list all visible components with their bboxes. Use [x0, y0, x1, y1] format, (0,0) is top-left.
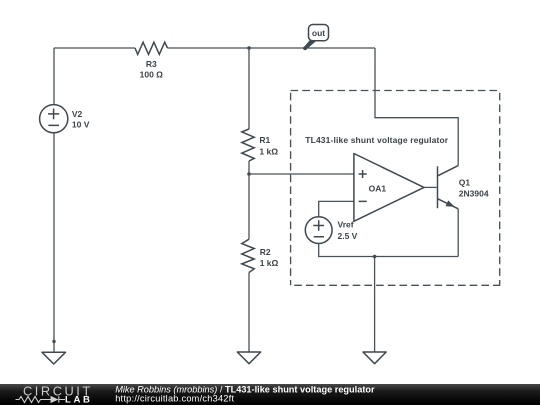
svg-text:10 V: 10 V: [72, 120, 90, 130]
node dot above left ground: [52, 340, 55, 343]
svg-text:Q1: Q1: [459, 178, 471, 188]
svg-text:TL431-like shunt voltage regul: TL431-like shunt voltage regulator: [305, 135, 448, 145]
dashed subcircuit box: [291, 91, 501, 286]
voltage source Vref: [305, 217, 332, 244]
svg-text:2.5 V: 2.5 V: [338, 231, 358, 241]
svg-text:100 Ω: 100 Ω: [140, 70, 164, 80]
node junction R1/R2/opamp: [247, 172, 251, 176]
node junction at R1 top: [247, 46, 251, 50]
footer bar: [0, 384, 540, 405]
wire V2 top lead: [53, 48, 55, 105]
svg-text:OA1: OA1: [369, 183, 387, 193]
wire opamp output to base: [424, 186, 437, 188]
voltage source V2: [40, 105, 68, 133]
ground right: [363, 352, 386, 364]
resistor R3: [135, 42, 168, 54]
wire noninverting input: [249, 173, 354, 175]
svg-text:out: out: [312, 28, 325, 38]
svg-text:Vref: Vref: [338, 220, 354, 230]
logo resistor-diode line: [16, 396, 66, 402]
svg-text:V2: V2: [72, 109, 83, 119]
flag out box: [309, 25, 329, 41]
resistor R2: [242, 239, 254, 272]
wire R2 bottom lead: [248, 273, 250, 353]
node junction bottom: [373, 255, 377, 259]
svg-text:R1: R1: [259, 135, 270, 145]
svg-text:LAB: LAB: [65, 395, 93, 405]
wire V2 bottom lead to ground: [53, 133, 55, 352]
resistor R1: [242, 129, 254, 161]
wire inverting input to Vref: [319, 201, 354, 216]
svg-text:R3: R3: [146, 59, 157, 69]
svg-text:1 kΩ: 1 kΩ: [259, 147, 278, 157]
op-amp OA1: [354, 154, 424, 222]
node flag attach dot: [303, 46, 307, 50]
wire R1 bottom to junction and down to R2: [248, 161, 250, 239]
wire top net from V2 to corner x375: [54, 47, 375, 49]
ground middle: [237, 352, 260, 364]
svg-text:R2: R2: [260, 247, 271, 257]
logo diode triangle: [51, 396, 59, 403]
svg-text:1 kΩ: 1 kΩ: [260, 258, 279, 268]
flag out tail: [304, 39, 317, 49]
wire Vref bottom to emitter net: [319, 244, 459, 257]
wire R1 top lead: [248, 48, 250, 129]
transistor Q1: [438, 166, 459, 209]
ground left: [42, 352, 66, 364]
wire out net down and over to collector: [375, 48, 458, 166]
wire emitter down: [457, 209, 459, 257]
svg-text:2N3904: 2N3904: [459, 188, 489, 198]
wire to center ground: [374, 257, 376, 353]
svg-text:http://circuitlab.com/ch342ft: http://circuitlab.com/ch342ft: [115, 394, 234, 404]
